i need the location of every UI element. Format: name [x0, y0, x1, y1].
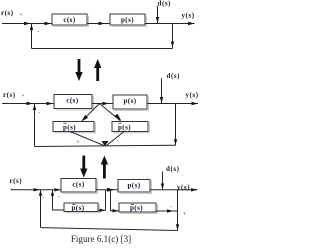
wire d(s) disturbance drop D1: [157, 6, 159, 24]
arrow feedback up into sum D1: [30, 24, 33, 30]
wire left pbar output to V1 riser D3: [98, 209, 106, 211]
wire r(s) input D2: [2, 103, 54, 105]
arrow output y(s) D2: [192, 102, 199, 105]
thick down arrow between diagram 2 and 3: [80, 156, 87, 178]
svg-text:-: -: [58, 194, 60, 200]
block pbar(s) right D3: [119, 203, 158, 213]
svg-text:-: -: [43, 195, 45, 201]
svg-text:-: -: [38, 29, 40, 35]
arrow into right pbar D3: [113, 209, 119, 212]
arrow outer feedback down D3: [176, 224, 179, 230]
svg-text:c(s): c(s): [63, 16, 76, 24]
wire c(s) to p(s) D1: [87, 23, 110, 25]
arrow feedback down D2: [174, 139, 177, 145]
svg-text:-: -: [39, 110, 41, 116]
arrow into p(s) D1: [99, 22, 106, 25]
wire feedback riser D1: [31, 24, 33, 49]
arrow d(s) into line D1: [156, 17, 159, 23]
wire p(s) to output D2: [147, 103, 198, 105]
thick up arrow between diagram 1 and 2: [94, 59, 101, 81]
arrow feedback down D1: [171, 42, 174, 48]
wire feedback drop D2: [175, 104, 177, 146]
block c(s) D1: [52, 14, 89, 27]
wire V1 riser D3: [105, 190, 107, 210]
svg-text:-: -: [171, 204, 173, 210]
arrow into c(s) D3: [55, 188, 61, 191]
wire V2 drop D3: [111, 190, 120, 211]
wire right pbar down to vertex D2: [107, 132, 125, 146]
wire outer feedback drop D3: [177, 190, 179, 231]
svg-text:p(s): p(s): [71, 204, 84, 212]
arrow junction1 up into line D3: [39, 190, 42, 196]
svg-text:r(s): r(s): [10, 177, 23, 185]
wire r(s) input D3: [11, 189, 61, 191]
wire outer feedback riser D3: [40, 190, 42, 228]
wire junction2 drop to left pbar D3: [53, 190, 65, 210]
wire outer feedback bottom D3: [41, 228, 178, 231]
wire left pbar down to vertex D2: [70, 132, 104, 146]
wire c(s) to p(s) D3: [96, 189, 118, 191]
svg-text:y(s): y(s): [182, 12, 195, 20]
block c(s) D3: [61, 179, 98, 194]
arrow at V1 base D3: [100, 209, 106, 212]
svg-text:+: +: [22, 93, 25, 99]
svg-text:p(s): p(s): [123, 97, 136, 105]
svg-text:p(s): p(s): [118, 123, 131, 131]
svg-text:+: +: [77, 140, 80, 146]
svg-text:p(s): p(s): [121, 16, 134, 24]
svg-text:+: +: [183, 211, 186, 217]
arrow into c(s) D2: [47, 102, 54, 105]
svg-text:r(s): r(s): [1, 9, 14, 17]
svg-text:d(s): d(s): [167, 72, 181, 80]
arrow right pbar output D3: [167, 209, 173, 212]
arrow on input wire D1: [24, 22, 31, 25]
block p(s) D3: [118, 180, 152, 194]
wire p(s) to output y(s) D1: [145, 23, 195, 25]
arrow feedback up into sum D2: [33, 104, 36, 110]
arrow on input wire D3: [34, 188, 41, 191]
arrow into p(s) D2: [103, 102, 110, 105]
arrow output y(s) D3: [191, 188, 198, 191]
wire feedback bottom D1: [32, 48, 173, 50]
arrow vertex down into feedback line D2: [102, 141, 109, 146]
wire feedback drop D1: [172, 24, 174, 49]
svg-text:c(s): c(s): [72, 181, 85, 189]
svg-text:Figure 6.1(c) [3]: Figure 6.1(c) [3]: [71, 234, 131, 244]
arrow into left pbar top D2: [81, 115, 88, 122]
block pbar(s) left D3: [64, 203, 100, 213]
thick up arrow between diagram 2 and 3: [101, 156, 108, 179]
svg-text:p(s): p(s): [63, 123, 76, 131]
wire r(s) input to c(s) D1: [2, 23, 52, 25]
wire p(s) to output y(s) D3: [150, 189, 198, 191]
arrow into c(s) D1: [45, 22, 52, 25]
wire right pbar output to feedback drop D3: [156, 210, 177, 212]
svg-text:y(s): y(s): [186, 91, 199, 99]
svg-text:r(s): r(s): [3, 91, 16, 99]
arrow output y(s) D1: [188, 22, 195, 25]
wire c(s) to junction peak D2: [92, 103, 113, 105]
arrow into right pbar top D2: [115, 114, 122, 122]
wire diagonal peak to right pbar D2: [100, 104, 121, 121]
wire d(s) drop D3: [162, 172, 164, 190]
svg-text:y(s): y(s): [177, 183, 190, 191]
svg-text:p(s): p(s): [130, 204, 143, 212]
svg-text:c(s): c(s): [66, 97, 79, 105]
arrow on input wire D2: [27, 102, 34, 105]
wire d(s) drop D2: [161, 78, 163, 103]
arrow d(s) into line D3: [161, 184, 164, 190]
block p(s) D1: [110, 14, 147, 27]
arrow junction2 up into line D3: [51, 190, 54, 196]
arrow d(s) into line D2: [160, 97, 163, 103]
block pbar(s) left D2: [53, 122, 96, 133]
arrow into p(s) D3: [107, 188, 115, 192]
wire diagonal peak to left pbar D2: [83, 104, 100, 120]
block p(s) D2: [113, 95, 149, 111]
svg-text:d(s): d(s): [158, 0, 172, 8]
block c(s) D2: [54, 95, 94, 111]
svg-text:p(s): p(s): [127, 181, 140, 189]
wire feedback riser D2: [34, 104, 36, 147]
svg-text:+: +: [20, 12, 23, 18]
wire feedback bottom D2: [35, 145, 176, 146]
svg-text:d(s): d(s): [166, 165, 180, 173]
block pbar(s) right D2: [112, 122, 150, 133]
thick down arrow between diagram 1 and 2: [75, 59, 82, 81]
svg-text:-: -: [117, 138, 119, 144]
